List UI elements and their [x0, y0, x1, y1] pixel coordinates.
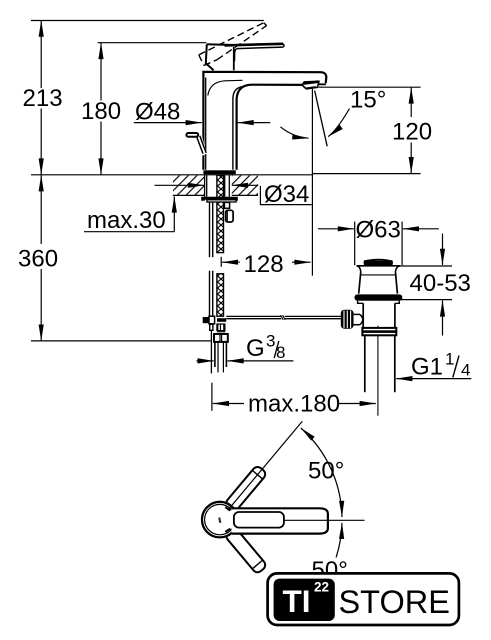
svg-text:max.180: max.180 [248, 391, 340, 418]
svg-text:G1: G1 [411, 354, 443, 381]
svg-text:15°: 15° [350, 87, 386, 114]
svg-text:Ø48: Ø48 [135, 99, 180, 126]
svg-text:Ø63: Ø63 [356, 217, 401, 244]
svg-text:Ø34: Ø34 [264, 181, 309, 208]
svg-text:120: 120 [392, 119, 432, 146]
svg-text:360: 360 [18, 246, 58, 273]
svg-text:4: 4 [461, 361, 470, 380]
svg-text:50°: 50° [308, 458, 344, 485]
svg-text:STORE: STORE [339, 584, 450, 620]
svg-text:40-53: 40-53 [410, 270, 471, 297]
svg-text:1: 1 [445, 350, 454, 369]
svg-text:TI: TI [283, 583, 311, 619]
svg-text:G: G [246, 335, 265, 362]
svg-text:128: 128 [244, 251, 284, 278]
svg-text:180: 180 [81, 98, 121, 125]
svg-text:213: 213 [23, 85, 63, 112]
svg-text:22: 22 [314, 580, 329, 595]
svg-text:max.30: max.30 [87, 207, 166, 234]
svg-text:3: 3 [266, 332, 275, 351]
